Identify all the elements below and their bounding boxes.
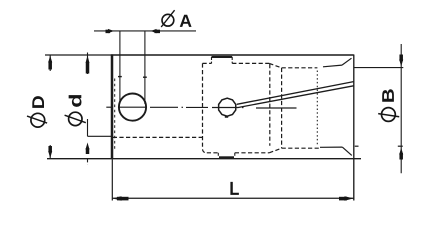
arrow d bottom (points up, outside) [86, 143, 90, 150]
dimension B: dim line [400, 44, 402, 173]
cavity top edge segments [203, 62, 212, 64]
top-right inner chamfer lines [323, 65, 342, 67]
dimension A: right extension line [144, 31, 146, 104]
cavity bottom-right chamfer [269, 148, 281, 153]
label L [230, 182, 238, 195]
label B (rotated) [382, 89, 394, 101]
dimension d: dim line [87, 53, 89, 75]
label Ø of Ød [65, 112, 86, 125]
top keyway tab [212, 56, 233, 58]
arrow A left (points right) [108, 29, 114, 33]
label D (rotated) [32, 96, 44, 108]
cavity hidden outline [113, 63, 321, 152]
arrow L left (points left) [113, 196, 122, 201]
arrow B top (points down, outside) [399, 60, 403, 67]
drift slot diagonal lower [238, 86, 354, 108]
label A [180, 15, 192, 27]
cavity bottom edge segments [207, 152, 219, 154]
bottom-right inner chamfer lines [320, 146, 342, 148]
arrow B bottom (points up, outside) [399, 148, 403, 155]
taper bore bottom line [282, 147, 321, 149]
dimension d: bottom extension line [88, 135, 113, 137]
cavity left face [203, 63, 207, 152]
dimension L: dim line [112, 197, 354, 199]
label Ø of ØB [378, 108, 399, 122]
dimension B: bottom extension stubs [355, 145, 359, 147]
bore edge hidden line near flange [114, 79, 116, 151]
cavity right face [269, 64, 271, 146]
label Ø of ØD [27, 113, 47, 127]
dimension D: top extension line [45, 54, 111, 56]
body top edge [111, 54, 354, 56]
bore line remnant ticks [118, 76, 122, 78]
dimension L: left extension line [111, 160, 113, 201]
inner hole polygon (screw head) [219, 98, 236, 116]
arrow A right (points left) [151, 29, 157, 33]
dimension B: top extension line [354, 67, 403, 69]
arrow D top (points up) [48, 55, 52, 62]
taper bore mouth face [281, 68, 283, 148]
arrow D bottom (points down) [48, 151, 52, 158]
cavity top-right chamfer [269, 63, 281, 68]
body right edge and L extension line [353, 55, 355, 201]
dimension A: left extension line [119, 31, 121, 101]
body left edge (thick flange face) [111, 54, 114, 159]
label Ø of ØA [161, 10, 174, 27]
taper bore top line [282, 67, 318, 69]
screw slot nub [225, 116, 228, 118]
drift slot diagonal upper [237, 82, 354, 105]
dimension A: dim line [94, 30, 196, 32]
taper bore end face (dotted) [316, 71, 318, 146]
arrow L right (points right) [345, 196, 354, 201]
front hole circle [119, 94, 146, 121]
body bottom edge with left extension [47, 158, 361, 160]
bore bottom hidden line [113, 136, 202, 138]
dimension D: dim line stubs [49, 55, 51, 71]
bottom keyway tab [219, 156, 234, 158]
label d (rotated) [69, 95, 82, 107]
arrow d top (points up) [86, 55, 90, 63]
centerline (dash-dot) [106, 106, 296, 109]
